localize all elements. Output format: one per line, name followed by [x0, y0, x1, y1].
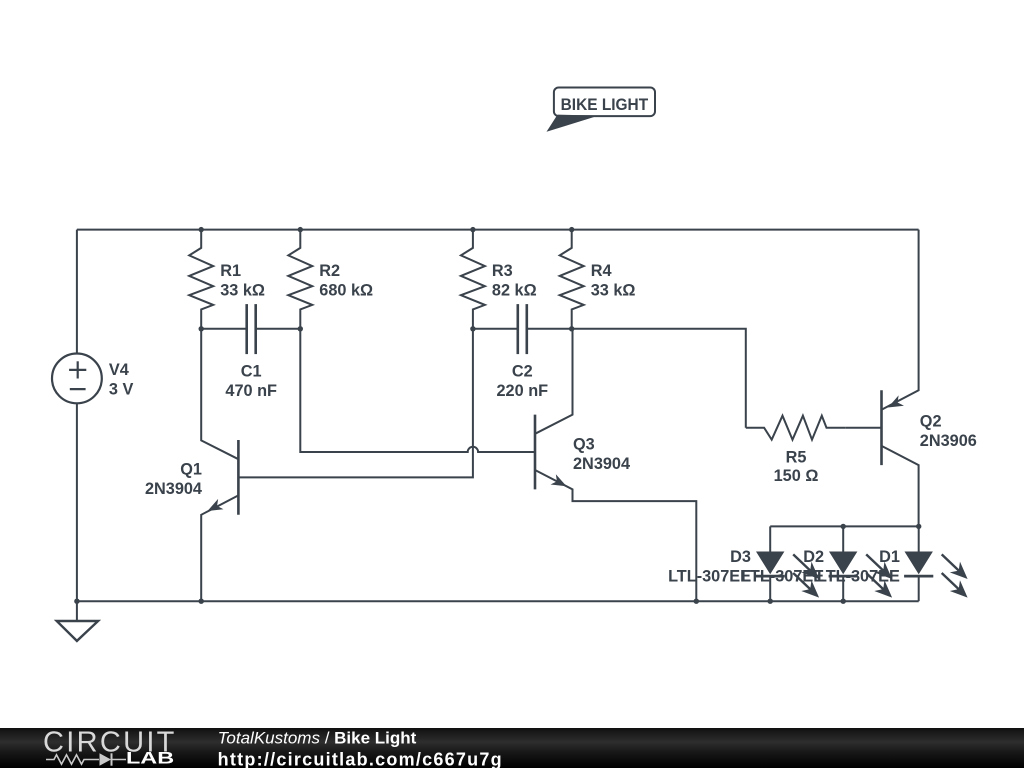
transistor Q1 base bar [237, 440, 240, 515]
LED D2 light arrows [866, 554, 886, 573]
node D2 anode rail [841, 524, 846, 529]
logo LAB [126, 750, 174, 768]
svg-text:LTL-307EE: LTL-307EE [741, 568, 824, 586]
svg-text:82 kΩ: 82 kΩ [492, 282, 537, 300]
LED D2 [842, 526, 844, 552]
transistor Q1 emitter arrow [205, 499, 224, 516]
svg-text:LTL-307EE: LTL-307EE [817, 568, 900, 586]
node D1 anode rail [916, 524, 921, 529]
annotation bubble BIKE LIGHT [554, 88, 655, 117]
svg-text:2N3906: 2N3906 [920, 432, 977, 450]
svg-text:BIKE LIGHT: BIKE LIGHT [561, 96, 649, 114]
transistor Q1 emitter [201, 495, 238, 601]
svg-text:33 kΩ: 33 kΩ [591, 282, 636, 300]
transistor Q2 collector [882, 446, 919, 527]
svg-text:http://circuitlab.com/c667u7g: http://circuitlab.com/c667u7g [218, 749, 503, 768]
svg-text:680 kΩ: 680 kΩ [319, 282, 373, 300]
svg-text:V4: V4 [109, 361, 129, 379]
logo wire with resistor and diode [46, 755, 126, 764]
svg-text:R5: R5 [786, 449, 807, 467]
transistor Q2 emitter arrow (PNP) [885, 395, 904, 412]
LED D1 [918, 526, 920, 552]
node C2 right [569, 326, 574, 331]
transistor Q3 base bar [534, 415, 537, 490]
transistor Q2 emitter [882, 230, 919, 410]
svg-text:C2: C2 [512, 362, 533, 380]
node C1 right [298, 326, 303, 331]
wire left column top (V4 to rail) [76, 230, 78, 354]
svg-text:Q1: Q1 [180, 461, 202, 479]
svg-text:D1: D1 [879, 548, 900, 566]
wire R3 bottom to Q1 base [238, 329, 473, 478]
footer bar [0, 728, 1024, 768]
svg-text:TotalKustoms / Bike Light: TotalKustoms / Bike Light [218, 728, 417, 747]
wire LED anode rail [770, 525, 919, 527]
resistor R3 [461, 230, 485, 329]
node D3 cathode at rail [768, 599, 773, 604]
wire R5 to Q2 base [846, 427, 882, 429]
resistor R5 [746, 416, 846, 440]
svg-text:220 nF: 220 nF [497, 382, 549, 400]
transistor Q3 collector [535, 329, 573, 434]
svg-text:D3: D3 [730, 548, 751, 566]
transistor Q1 collector [201, 329, 238, 459]
wire left column bottom (V4 to ground rail) [76, 403, 78, 601]
capacitor C1 [201, 328, 247, 330]
resistor R2 [288, 230, 312, 329]
wire R4 bottom to R5 [572, 329, 746, 428]
transistor Q2 base bar [880, 390, 883, 465]
voltage source V4 [52, 354, 102, 404]
wire top power rail [77, 229, 919, 231]
svg-text:150 Ω: 150 Ω [774, 467, 819, 485]
svg-text:R2: R2 [319, 262, 340, 280]
svg-text:3 V: 3 V [109, 380, 134, 398]
node R4 top [569, 227, 574, 232]
capacitor C2 [473, 328, 518, 330]
ground [76, 601, 78, 621]
node R1 top [199, 227, 204, 232]
svg-text:Q2: Q2 [920, 412, 942, 430]
transistor Q3 emitter arrow [551, 474, 570, 491]
node C2 left [470, 326, 475, 331]
svg-text:C1: C1 [241, 362, 262, 380]
node ground junction [74, 599, 79, 604]
wire R2 bottom to Q3 base with hop [300, 329, 535, 452]
svg-text:D2: D2 [803, 548, 824, 566]
LED D1 light arrows [942, 554, 962, 573]
LED D3 light arrows [793, 554, 813, 573]
svg-text:R3: R3 [492, 262, 513, 280]
svg-text:470 nF: 470 nF [225, 382, 277, 400]
node R2 top [298, 227, 303, 232]
node Q1 emitter at rail [199, 599, 204, 604]
LED D3 [769, 526, 771, 552]
svg-text:R4: R4 [591, 262, 612, 280]
node Q3 emitter at rail [694, 599, 699, 604]
svg-text:2N3904: 2N3904 [145, 480, 202, 498]
wire bottom ground rail [77, 600, 919, 602]
resistor R1 [189, 230, 213, 329]
node D2 cathode at rail [841, 599, 846, 604]
svg-text:33 kΩ: 33 kΩ [220, 282, 265, 300]
node R3 top [470, 227, 475, 232]
transistor Q3 emitter [535, 470, 696, 601]
node C1 left [199, 326, 204, 331]
resistor R4 [560, 230, 584, 329]
svg-text:Q3: Q3 [573, 435, 595, 453]
svg-text:R1: R1 [220, 262, 241, 280]
svg-text:LTL-307EE: LTL-307EE [668, 568, 751, 586]
svg-text:2N3904: 2N3904 [573, 455, 630, 473]
svg-text:LAB: LAB [126, 750, 174, 768]
